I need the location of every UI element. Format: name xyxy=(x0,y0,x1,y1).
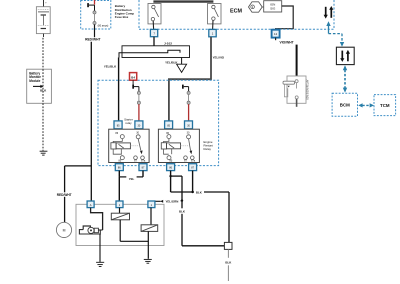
svg-text:M: M xyxy=(63,228,66,232)
svg-text:Module: Module xyxy=(29,79,40,83)
svg-text:ECM: ECM xyxy=(230,9,242,15)
svg-text:87a: 87a xyxy=(141,160,146,163)
svg-text:YEL/VIO: YEL/VIO xyxy=(213,56,225,60)
svg-text:B4: B4 xyxy=(131,75,135,79)
svg-text:A: A xyxy=(90,203,92,207)
svg-text:relay: relay xyxy=(125,121,132,125)
svg-text:J-102: J-102 xyxy=(164,41,172,45)
svg-text:SIG: SIG xyxy=(270,7,276,11)
svg-text:TCM: TCM xyxy=(380,103,390,108)
svg-text:87a: 87a xyxy=(191,160,196,163)
svg-text:YEL/GRN: YEL/GRN xyxy=(165,199,178,203)
svg-text:BLK: BLK xyxy=(179,210,186,214)
svg-text:BLK: BLK xyxy=(196,190,203,194)
svg-text:Fuse Box: Fuse Box xyxy=(115,15,129,19)
svg-text:BCM: BCM xyxy=(340,103,350,108)
svg-text:12: 12 xyxy=(274,32,278,36)
svg-text:YEL/BLK: YEL/BLK xyxy=(104,65,117,69)
svg-text:(80 amps): (80 amps) xyxy=(98,24,109,27)
svg-text:BLK: BLK xyxy=(225,260,232,264)
svg-text:RED/WHT: RED/WHT xyxy=(85,38,100,42)
svg-text:VIO/WHT: VIO/WHT xyxy=(280,41,294,45)
svg-text:YEL: YEL xyxy=(129,177,135,181)
svg-text:IGN SIGN RELAY: IGN SIGN RELAY xyxy=(306,79,309,99)
svg-text:BLK: BLK xyxy=(40,88,47,92)
svg-text:RED/WHT: RED/WHT xyxy=(57,193,72,197)
svg-text:Relay: Relay xyxy=(204,147,212,151)
